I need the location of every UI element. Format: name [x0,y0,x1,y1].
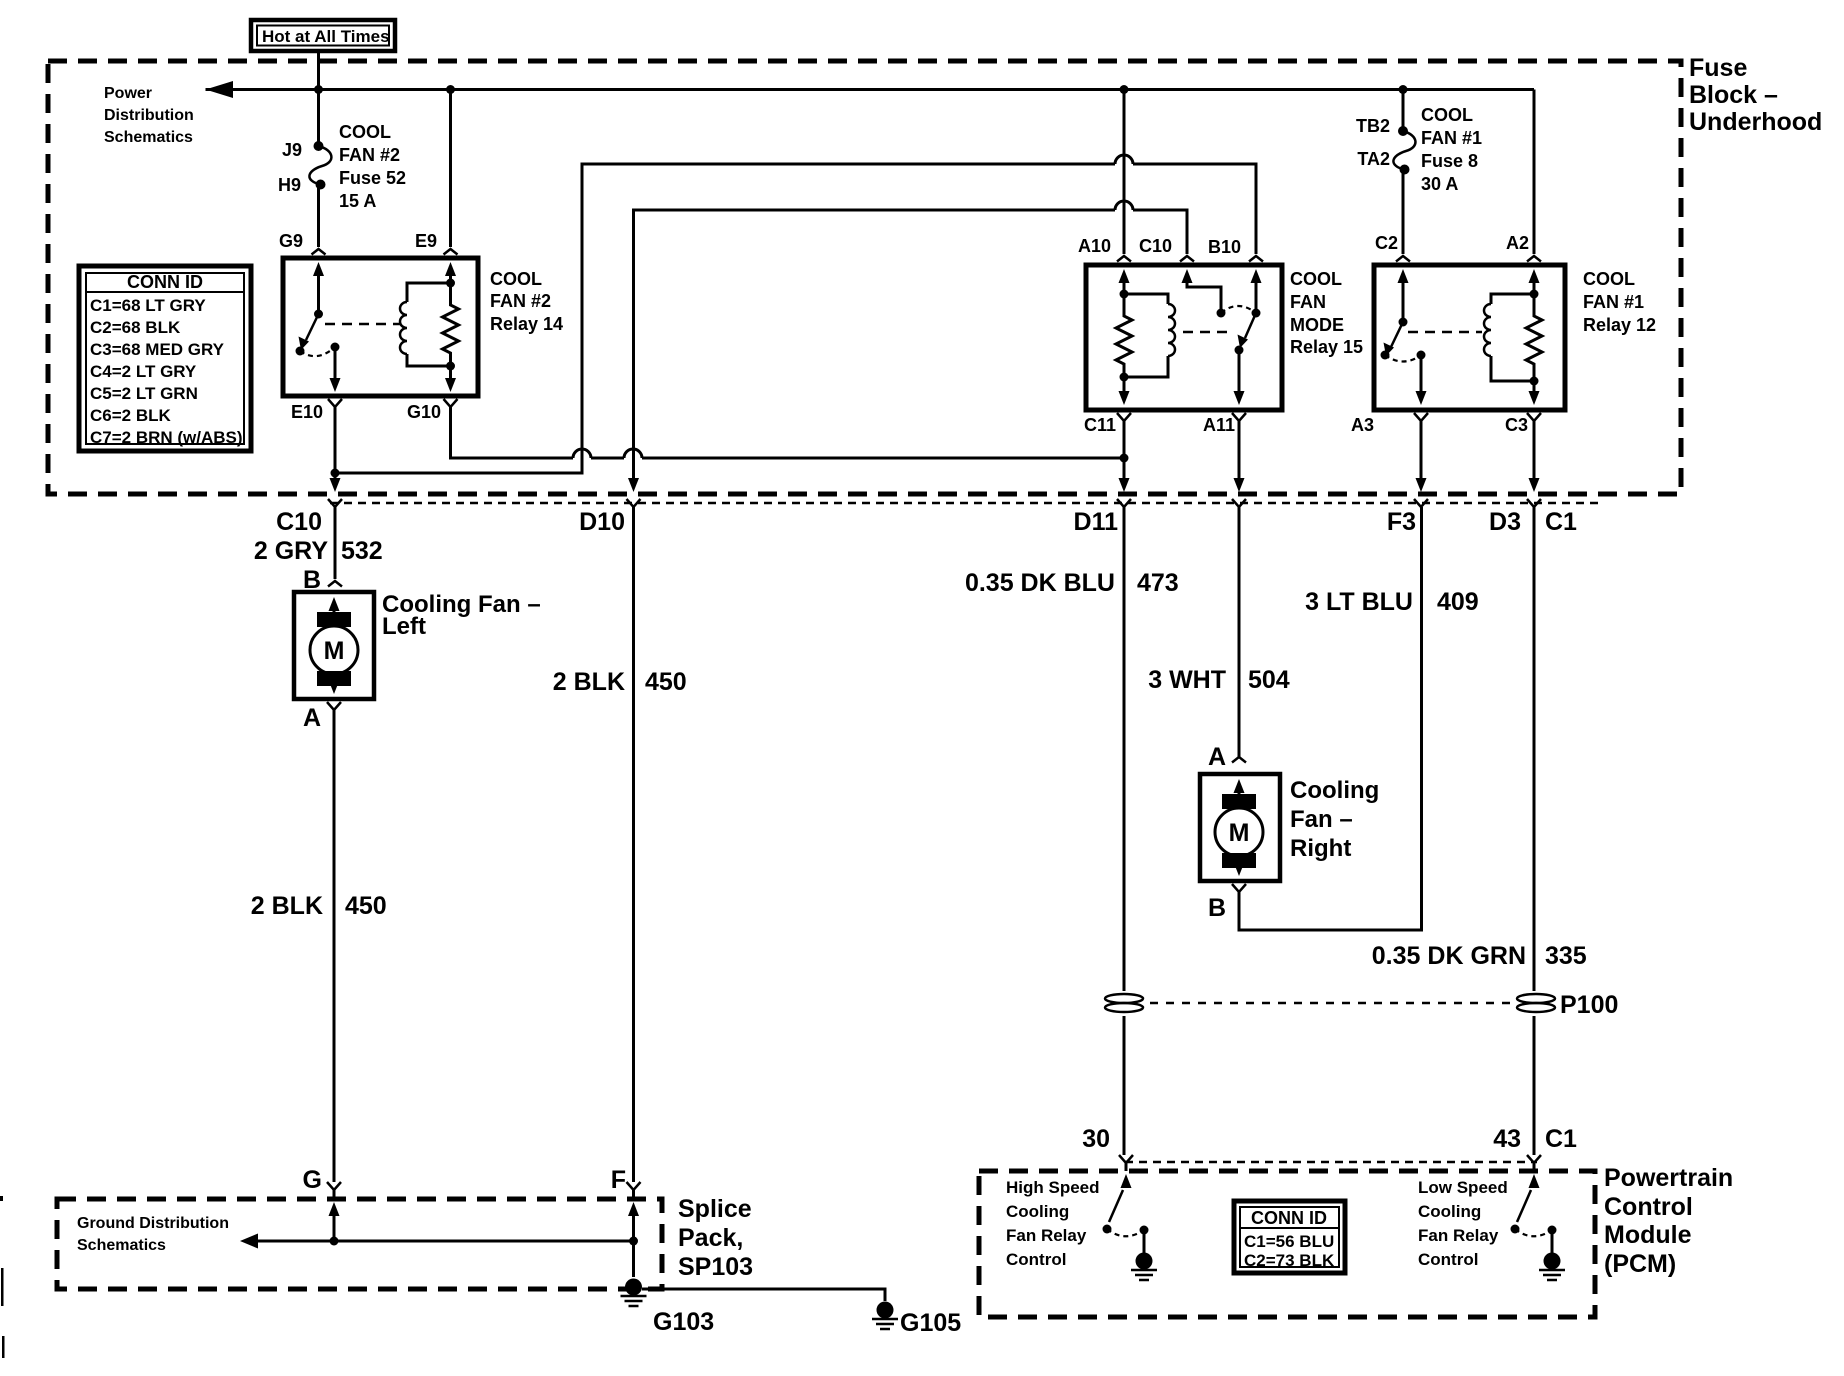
svg-text:Control: Control [1418,1250,1478,1269]
svg-text:C1=68 LT GRY: C1=68 LT GRY [90,296,206,315]
svg-text:0.35 DK GRN: 0.35 DK GRN [1372,942,1526,970]
svg-text:Powertrain: Powertrain [1604,1164,1733,1192]
svg-text:TB2: TB2 [1356,116,1390,136]
svg-text:2 BLK: 2 BLK [251,892,323,920]
svg-text:COOL: COOL [1290,269,1342,289]
svg-text:C3: C3 [1505,415,1528,435]
svg-text:Fuse 8: Fuse 8 [1421,151,1478,171]
svg-text:C6=2 BLK: C6=2 BLK [90,406,171,425]
svg-text:Fuse 52: Fuse 52 [339,168,406,188]
svg-text:C2: C2 [1375,233,1398,253]
svg-text:Module: Module [1604,1221,1692,1249]
svg-text:Schematics: Schematics [104,129,193,146]
svg-text:P100: P100 [1560,991,1618,1019]
svg-text:FAN #1: FAN #1 [1583,292,1644,312]
svg-text:G9: G9 [279,231,303,251]
svg-text:G: G [303,1166,322,1194]
svg-text:Ground Distribution: Ground Distribution [77,1215,229,1232]
svg-text:Cooling: Cooling [1418,1202,1481,1221]
svg-text:A2: A2 [1506,233,1529,253]
svg-text:Relay 15: Relay 15 [1290,337,1363,357]
svg-text:2 GRY: 2 GRY [254,537,328,565]
svg-text:Cooling: Cooling [1290,777,1379,804]
svg-text:Distribution: Distribution [104,107,194,124]
svg-text:C4=2 LT GRY: C4=2 LT GRY [90,362,197,381]
svg-text:TA2: TA2 [1357,149,1390,169]
svg-text:Splice: Splice [678,1195,752,1223]
svg-text:CONN ID: CONN ID [1251,1208,1327,1228]
svg-text:Pack,: Pack, [678,1224,743,1252]
svg-text:0.35 DK BLU: 0.35 DK BLU [965,569,1115,597]
svg-text:M: M [324,637,345,665]
svg-text:15 A: 15 A [339,191,376,211]
svg-text:473: 473 [1137,569,1179,597]
svg-text:C11: C11 [1084,415,1116,435]
svg-text:Control: Control [1006,1250,1066,1269]
svg-text:E10: E10 [291,402,323,422]
svg-text:(PCM): (PCM) [1604,1250,1676,1278]
svg-text:C1: C1 [1545,1125,1577,1153]
svg-text:A3: A3 [1351,415,1374,435]
svg-text:43: 43 [1493,1125,1521,1153]
svg-text:Schematics: Schematics [77,1237,166,1254]
svg-text:J9: J9 [282,140,302,160]
svg-text:504: 504 [1248,666,1290,694]
svg-text:Right: Right [1290,835,1351,862]
svg-text:FAN: FAN [1290,292,1326,312]
svg-text:High Speed: High Speed [1006,1178,1100,1197]
svg-text:COOL: COOL [1583,269,1635,289]
svg-text:Control: Control [1604,1193,1693,1221]
svg-text:2 BLK: 2 BLK [553,668,625,696]
svg-text:D11: D11 [1074,508,1119,536]
svg-text:Relay 12: Relay 12 [1583,315,1656,335]
svg-text:450: 450 [345,892,387,920]
svg-text:C7=2 BRN (w/ABS): C7=2 BRN (w/ABS) [90,428,243,447]
svg-text:E9: E9 [415,231,437,251]
svg-text:C10: C10 [276,508,322,536]
svg-text:Left: Left [382,613,426,640]
svg-text:Fan Relay: Fan Relay [1418,1226,1499,1245]
svg-text:A: A [303,704,321,732]
svg-text:C1: C1 [1545,508,1577,536]
svg-text:H9: H9 [278,175,301,195]
svg-text:G103: G103 [653,1308,714,1336]
svg-text:FAN #2: FAN #2 [490,291,551,311]
svg-text:532: 532 [341,537,383,565]
svg-text:3 LT BLU: 3 LT BLU [1305,588,1413,616]
svg-text:C2=68 BLK: C2=68 BLK [90,318,181,337]
svg-text:G10: G10 [407,402,441,422]
svg-text:Fan Relay: Fan Relay [1006,1226,1087,1245]
svg-text:Power: Power [104,85,152,102]
svg-text:D10: D10 [579,508,625,536]
svg-text:COOL: COOL [339,122,391,142]
svg-text:F3: F3 [1387,508,1416,536]
svg-text:C10: C10 [1139,236,1172,256]
svg-text:M: M [1229,819,1250,847]
svg-text:Low Speed: Low Speed [1418,1178,1508,1197]
svg-text:Underhood: Underhood [1689,108,1822,136]
svg-text:F: F [611,1166,626,1194]
svg-text:SP103: SP103 [678,1253,753,1281]
svg-text:450: 450 [645,668,687,696]
svg-text:D3: D3 [1489,508,1521,536]
svg-text:B10: B10 [1208,237,1241,257]
svg-text:Block –: Block – [1689,81,1778,109]
svg-text:Hot at All Times: Hot at All Times [262,27,390,46]
svg-text:Cooling: Cooling [1006,1202,1069,1221]
svg-text:Fuse: Fuse [1689,54,1747,82]
svg-text:A10: A10 [1078,236,1111,256]
svg-text:B: B [1208,894,1226,922]
svg-text:409: 409 [1437,588,1479,616]
svg-text:Relay 14: Relay 14 [490,314,563,334]
svg-text:FAN #1: FAN #1 [1421,128,1482,148]
svg-text:COOL: COOL [1421,105,1473,125]
svg-text:30 A: 30 A [1421,174,1458,194]
svg-text:CONN ID: CONN ID [127,272,203,292]
svg-text:C5=2 LT GRN: C5=2 LT GRN [90,384,198,403]
svg-text:Fan –: Fan – [1290,806,1353,833]
svg-text:A: A [1208,743,1226,771]
svg-text:C2=73 BLK: C2=73 BLK [1244,1251,1335,1270]
svg-text:MODE: MODE [1290,315,1344,335]
svg-text:A11: A11 [1203,415,1235,435]
svg-text:G105: G105 [900,1309,961,1337]
svg-text:FAN #2: FAN #2 [339,145,400,165]
svg-text:C3=68 MED GRY: C3=68 MED GRY [90,340,225,359]
svg-text:30: 30 [1082,1125,1110,1153]
svg-text:335: 335 [1545,942,1587,970]
svg-text:3 WHT: 3 WHT [1148,666,1226,694]
svg-text:COOL: COOL [490,269,542,289]
svg-text:C1=56 BLU: C1=56 BLU [1244,1232,1334,1251]
